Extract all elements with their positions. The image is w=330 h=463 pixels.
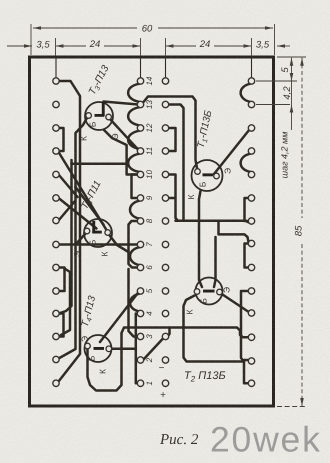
wire: T5 emitter drop bbox=[76, 233, 87, 245]
wire: bracket col3 12-11 bbox=[169, 128, 176, 151]
wire: trunk3 to pin 4L bbox=[59, 160, 72, 314]
wire: diagonal T2 emitter to pin 4R bbox=[221, 294, 250, 313]
dimension lines right bbox=[256, 57, 306, 407]
transistor T5 bbox=[72, 179, 112, 257]
wire: arc col2 7-6 bbox=[130, 247, 139, 265]
pins column 2 bbox=[137, 78, 143, 387]
wire: bracket pin4L-pin3L bbox=[59, 314, 64, 337]
transistor T1 bbox=[186, 109, 233, 200]
dimension arrowheads top bbox=[24, 26, 285, 48]
wire: bracket pin7R-pin6R bbox=[245, 244, 250, 268]
wire: arc col4 14-13 bbox=[241, 84, 250, 102]
transistor T3 bbox=[79, 63, 121, 141]
wire: arc col4 11-10 bbox=[241, 154, 250, 172]
wire: vertical pin6M junction down to pin 3M bbox=[129, 269, 138, 337]
dimension labels right bbox=[280, 67, 305, 237]
wire: diagonal pin8L to trunk bbox=[59, 201, 76, 221]
pins right column bbox=[248, 78, 254, 387]
pins column 3 bbox=[162, 78, 168, 387]
wire: arc col2 5-4 bbox=[130, 294, 139, 312]
wire: arc col2 11-10 bbox=[128, 154, 139, 172]
wire: diagonal pin10L to trunk bbox=[59, 175, 78, 198]
dimension lines top bbox=[7, 24, 290, 56]
wire: bracket pin10M-pin9M bbox=[132, 175, 138, 199]
dimension labels top bbox=[36, 24, 269, 51]
pins left column bbox=[53, 78, 59, 387]
wire: horizontal from trunk3 to T3 emitter drop bbox=[72, 163, 127, 166]
wire: diagonal pin12R to T1 base bbox=[214, 130, 250, 175]
wire: T4 loop to pin 3R bbox=[88, 328, 250, 391]
board outline bbox=[30, 57, 274, 406]
wire: left trunk from pin 14L down to pin 1L bbox=[59, 81, 81, 382]
transistor T4 bbox=[80, 294, 112, 374]
wire: hook from horizontal into pin 3 col3 bbox=[168, 328, 170, 337]
wire: T3 base to pin 13M bbox=[104, 102, 139, 105]
wire: arc col2 12-11 bbox=[128, 131, 139, 149]
wire: pin5R down to pin2R junction bbox=[241, 291, 249, 361]
wire: diagonal T4 base to pin 5M bbox=[100, 292, 139, 343]
dimension arrowheads right bbox=[290, 58, 304, 406]
wire: trunk2 from T3 left terminal to pin 2L bbox=[59, 117, 88, 359]
wire: pin13M over-the-top net to T1 left terminal bbox=[144, 97, 198, 169]
wire: stub pin8M to vertical bbox=[129, 221, 138, 253]
wire: bracket pin9R-pin8R bbox=[245, 198, 250, 221]
wire: T5 collector down to pin 6M bbox=[109, 234, 138, 268]
wire: bracket pin6L-pin5L bbox=[59, 268, 65, 292]
wire: bracket col3 10-9 with tail to long horizontal bbox=[169, 175, 179, 221]
wire: corner net into pin 7R bbox=[219, 222, 249, 242]
wire: stub pin3L up bbox=[61, 269, 70, 336]
wire: diagonal trunk to T5 bbox=[76, 187, 104, 225]
wire: T1 collector down to T2 base left bbox=[199, 191, 202, 287]
wire: T3 bottom to pin 10M bbox=[104, 130, 138, 175]
wire: T4 right terminal to bus bbox=[109, 348, 136, 351]
wires layer bbox=[56, 58, 252, 391]
wire: vertical into T2 base right bbox=[214, 237, 216, 287]
wire: bracket pin12L-pin11L bbox=[59, 128, 64, 151]
wire: arc col2 9-8 bbox=[130, 201, 139, 219]
wire: arc col2 13-12 bbox=[128, 107, 139, 125]
wire: long horizontal to pin 8R bbox=[176, 221, 249, 223]
pin row numbers bbox=[145, 76, 154, 386]
wire: diagonal pin9L to T5 base bbox=[59, 198, 97, 229]
wire: diagonal pin11L to T5 right terminal bbox=[59, 152, 107, 230]
transistor T2 bbox=[184, 278, 232, 384]
wire: extension stubs from top edge to pin row 14 bbox=[56, 58, 252, 78]
wire: T3 right terminal to pin 11M bbox=[109, 118, 139, 151]
wire: col3 pin13 net down to horizontal bbox=[169, 105, 184, 221]
wire: bracket pin2R-pin1R bbox=[244, 360, 249, 383]
wire: diagonal pin2M to pin3R' bbox=[144, 339, 164, 360]
polarity marks bbox=[159, 363, 167, 401]
wire: arc col2 14-13 bbox=[128, 84, 139, 102]
wire: long horizontal pin7L to pin7M bbox=[59, 243, 138, 246]
wire: bus pins 4M-1M bbox=[136, 314, 138, 384]
wire: T2 collector to pin 2R bbox=[184, 296, 245, 362]
